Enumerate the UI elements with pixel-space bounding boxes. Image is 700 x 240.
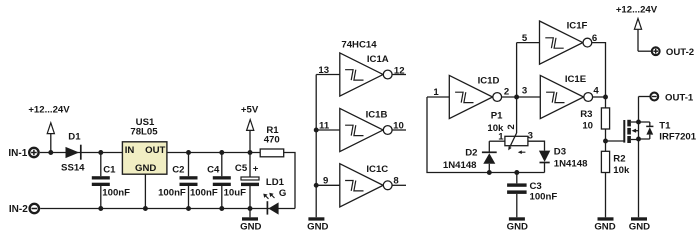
svg-text:SS14: SS14 <box>61 163 85 174</box>
svg-text:1: 1 <box>433 87 439 98</box>
svg-text:5: 5 <box>522 33 528 44</box>
svg-text:GND: GND <box>135 163 156 174</box>
svg-text:R2: R2 <box>613 153 625 164</box>
svg-text:IC1F: IC1F <box>567 21 588 32</box>
svg-text:8: 8 <box>393 176 399 187</box>
svg-text:100nF: 100nF <box>158 188 186 199</box>
svg-text:GND: GND <box>240 222 261 233</box>
svg-text:C4: C4 <box>207 164 220 175</box>
svg-text:11: 11 <box>319 120 330 131</box>
svg-text:2: 2 <box>506 124 517 129</box>
svg-text:10uF: 10uF <box>224 188 247 199</box>
svg-text:D2: D2 <box>465 147 477 158</box>
svg-text:C2: C2 <box>172 164 184 175</box>
svg-text:3: 3 <box>522 85 527 96</box>
svg-text:IC1B: IC1B <box>366 110 388 121</box>
svg-text:100nF: 100nF <box>530 192 558 203</box>
svg-text:P1: P1 <box>491 111 503 122</box>
svg-text:470: 470 <box>264 134 280 145</box>
svg-text:IRF7201: IRF7201 <box>659 132 696 143</box>
svg-text:9: 9 <box>323 176 328 187</box>
svg-text:IN: IN <box>125 145 135 156</box>
svg-text:4: 4 <box>593 85 599 96</box>
svg-text:GND: GND <box>594 222 615 233</box>
svg-text:IN-2: IN-2 <box>9 204 28 215</box>
svg-text:OUT-1: OUT-1 <box>665 92 694 103</box>
svg-text:100nF: 100nF <box>102 188 130 199</box>
svg-text:OUT-2: OUT-2 <box>666 47 694 58</box>
svg-text:3: 3 <box>528 131 533 142</box>
svg-text:13: 13 <box>318 65 329 76</box>
svg-text:+5V: +5V <box>241 104 259 115</box>
svg-text:78L05: 78L05 <box>130 127 158 138</box>
svg-text:10: 10 <box>393 120 404 131</box>
svg-text:100nF: 100nF <box>190 188 218 199</box>
svg-text:12: 12 <box>394 65 405 76</box>
svg-text:+: + <box>253 163 259 174</box>
svg-text:C5: C5 <box>235 163 248 174</box>
svg-text:C1: C1 <box>103 164 116 175</box>
svg-text:IC1C: IC1C <box>366 164 388 175</box>
svg-text:R3: R3 <box>580 109 592 120</box>
svg-text:D3: D3 <box>554 146 566 157</box>
svg-text:10: 10 <box>582 121 593 132</box>
svg-text:GND: GND <box>507 222 528 233</box>
svg-text:1N4148: 1N4148 <box>443 160 477 171</box>
svg-text:+12...24V: +12...24V <box>28 105 70 116</box>
svg-text:D1: D1 <box>68 132 81 143</box>
svg-text:IN-1: IN-1 <box>8 148 27 159</box>
svg-text:IC1D: IC1D <box>478 75 500 86</box>
svg-text:IC1A: IC1A <box>367 54 389 65</box>
svg-text:GND: GND <box>307 222 328 233</box>
svg-text:T1: T1 <box>659 121 671 132</box>
svg-text:1: 1 <box>498 131 504 142</box>
svg-text:OUT: OUT <box>145 145 165 156</box>
svg-text:74HC14: 74HC14 <box>341 40 377 51</box>
svg-text:+12...24V: +12...24V <box>616 4 658 15</box>
svg-text:LD1: LD1 <box>266 177 285 188</box>
svg-text:1N4148: 1N4148 <box>554 159 588 170</box>
svg-text:C3: C3 <box>530 181 542 192</box>
svg-text:GND: GND <box>629 222 650 233</box>
svg-text:10k: 10k <box>613 165 630 176</box>
svg-text:G: G <box>279 188 286 199</box>
svg-text:2: 2 <box>504 87 509 98</box>
svg-text:IC1E: IC1E <box>565 74 587 85</box>
